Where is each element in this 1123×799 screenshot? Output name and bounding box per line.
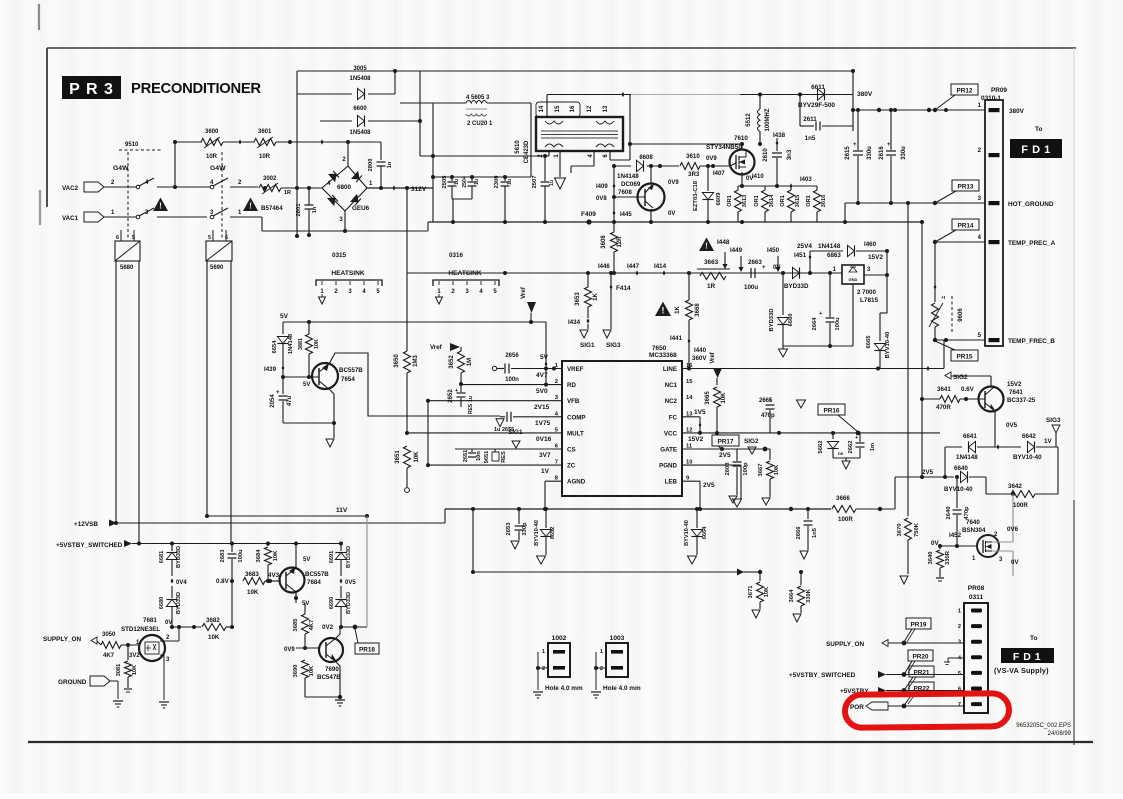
svg-text:TEMP_FREC_B: TEMP_FREC_B xyxy=(1008,338,1055,345)
svg-text:100R: 100R xyxy=(838,516,853,523)
wire 7690 collector up to 0V2 node xyxy=(336,634,340,638)
svg-text:I407: I407 xyxy=(713,171,725,177)
bridge rectifier 6800 GBU6 xyxy=(322,166,367,211)
svg-text:I434: I434 xyxy=(568,319,581,326)
svg-text:6800: 6800 xyxy=(337,184,352,191)
svg-text:BC547B: BC547B xyxy=(317,674,341,681)
wire S2 pin1 down to bottom return xyxy=(230,216,262,218)
net SIG1 stub down xyxy=(580,330,588,338)
svg-text:6608: 6608 xyxy=(639,155,653,161)
svg-text:I445: I445 xyxy=(620,212,632,218)
svg-text:0V: 0V xyxy=(165,620,172,626)
border frame top xyxy=(47,47,1076,49)
svg-text:F D 1: F D 1 xyxy=(1013,651,1041,663)
wire BSN304 drain to 3642 row xyxy=(992,541,1013,543)
svg-text:4V3: 4V3 xyxy=(268,572,280,579)
svg-text:100R: 100R xyxy=(1013,502,1028,509)
svg-text:3615: 3615 xyxy=(795,195,801,207)
svg-text:4V7: 4V7 xyxy=(536,372,548,379)
wire transformer top bus y95 xyxy=(547,94,631,96)
svg-text:!: ! xyxy=(705,242,708,251)
svg-text:0V8: 0V8 xyxy=(596,196,607,202)
svg-text:OR1: OR1 xyxy=(754,195,760,207)
svg-text:2: 2 xyxy=(542,666,545,672)
svg-text:G4W: G4W xyxy=(113,165,129,172)
svg-text:10K: 10K xyxy=(132,665,138,675)
svg-text:2V5: 2V5 xyxy=(703,482,715,489)
svg-text:RES: RES xyxy=(501,451,507,463)
svg-text:3614: 3614 xyxy=(769,194,775,207)
svg-text:100MHZ: 100MHZ xyxy=(765,108,771,131)
wire 6641 row left leg xyxy=(944,447,946,477)
svg-text:4 5605 3: 4 5605 3 xyxy=(466,95,490,101)
thermistor 3606 loop xyxy=(934,242,936,302)
svg-text:1M: 1M xyxy=(467,358,473,366)
svg-text:14: 14 xyxy=(686,395,693,401)
svg-text:2 7000: 2 7000 xyxy=(857,289,876,296)
svg-text:0311: 0311 xyxy=(969,594,984,601)
svg-text:I451: I451 xyxy=(794,252,807,259)
wire IC pin16 LINE 360V xyxy=(682,368,689,370)
wire IC pin11 GATE xyxy=(682,448,770,450)
svg-text:7654: 7654 xyxy=(341,376,355,383)
wire 7654 emitter to COMP net xyxy=(329,353,500,416)
svg-text:BYV10-40: BYV10-40 xyxy=(534,520,540,546)
svg-text:AGND: AGND xyxy=(567,479,586,486)
rail VCC 15V2 xyxy=(682,432,940,434)
relay coil 5690 xyxy=(206,241,232,261)
svg-text:1V: 1V xyxy=(541,468,550,475)
ground arrow under 6660 xyxy=(782,346,784,349)
svg-text:MC33368: MC33368 xyxy=(649,352,677,359)
svg-text:!: ! xyxy=(249,202,252,211)
svg-text:LINE: LINE xyxy=(663,366,677,373)
svg-text:3002: 3002 xyxy=(263,176,277,182)
callout PR17 xyxy=(712,435,739,446)
svg-text:PGND: PGND xyxy=(659,463,677,470)
svg-text:2505: 2505 xyxy=(442,175,448,189)
svg-text:2651: 2651 xyxy=(463,450,469,462)
title block PR3 xyxy=(62,76,121,99)
svg-text:3652: 3652 xyxy=(449,355,455,369)
wire 7684 collector to 3685 xyxy=(295,592,297,603)
svg-text:PR16: PR16 xyxy=(824,407,840,414)
svg-text:10n: 10n xyxy=(476,451,482,461)
wire 7641 emitter down xyxy=(994,411,996,447)
wire BSN304 source xyxy=(992,550,1013,552)
svg-text:3641: 3641 xyxy=(937,386,951,393)
svg-text:1003: 1003 xyxy=(610,635,625,642)
svg-text:7650: 7650 xyxy=(652,345,667,352)
svg-text:3665: 3665 xyxy=(705,391,711,405)
svg-text:I441: I441 xyxy=(670,335,683,342)
svg-text:7608: 7608 xyxy=(618,189,632,196)
svg-text:SUPPLY_ON: SUPPLY_ON xyxy=(43,636,82,643)
svg-text:24/08/99: 24/08/99 xyxy=(1048,731,1072,737)
node 0V4 xyxy=(171,578,174,583)
svg-text:10R: 10R xyxy=(259,154,271,160)
svg-text:PR08: PR08 xyxy=(968,585,985,592)
svg-text:BYD33D: BYD33D xyxy=(784,283,809,290)
svg-text:10K: 10K xyxy=(314,339,320,349)
svg-text:3R3: 3R3 xyxy=(688,171,700,178)
wire gray 11V drop xyxy=(366,516,368,627)
svg-text:0.6V: 0.6V xyxy=(961,386,975,393)
red annotation ellipse around POR xyxy=(845,693,1009,728)
svg-text:380V: 380V xyxy=(857,91,873,98)
svg-text:9651: 9651 xyxy=(484,451,490,463)
wire SIG3 row right leg xyxy=(1057,447,1059,494)
svg-text:SUPPLY_ON: SUPPLY_ON xyxy=(826,641,865,648)
svg-text:PR19: PR19 xyxy=(911,621,927,628)
svg-text:6: 6 xyxy=(225,235,228,241)
svg-text:2801: 2801 xyxy=(296,203,302,217)
svg-text:7690: 7690 xyxy=(325,666,339,673)
wire 312V down to I-row and line divider xyxy=(406,188,408,351)
node F414 xyxy=(610,273,612,329)
svg-text:ns: ns xyxy=(838,451,844,456)
svg-text:EZT03-C18: EZT03-C18 xyxy=(693,180,699,211)
svg-text:+: + xyxy=(855,435,858,441)
svg-text:PR12: PR12 xyxy=(957,87,973,94)
svg-text:BSN304: BSN304 xyxy=(962,527,986,534)
svg-text:2V15: 2V15 xyxy=(534,404,550,411)
svg-text:BYD33D: BYD33D xyxy=(769,309,775,332)
svg-text:360V: 360V xyxy=(692,355,707,362)
svg-text:1: 1 xyxy=(958,609,961,615)
wire 7690 emitter to ground xyxy=(336,662,340,666)
svg-text:BYV29F-500: BYV29F-500 xyxy=(798,102,835,109)
svg-text:470p: 470p xyxy=(964,506,970,520)
wire 3682 up to 0.8V node xyxy=(231,581,233,627)
svg-text:NC2: NC2 xyxy=(665,398,678,405)
svg-text:BYV10-40: BYV10-40 xyxy=(684,520,690,546)
svg-text:BYD33D: BYD33D xyxy=(346,592,352,614)
svg-text:2610: 2610 xyxy=(763,148,769,162)
svg-text:47u: 47u xyxy=(287,395,293,406)
svg-text:3005: 3005 xyxy=(353,66,367,72)
svg-text:PRECONDITIONER: PRECONDITIONER xyxy=(131,81,261,97)
svg-text:7: 7 xyxy=(958,702,961,708)
wire left loop x428 xyxy=(427,401,429,465)
wire opto pin3 to ground xyxy=(160,654,164,656)
svg-text:BC557B: BC557B xyxy=(339,367,363,374)
svg-text:330p: 330p xyxy=(522,522,528,536)
wire 7654 collector to ground xyxy=(330,390,334,394)
svg-text:0V9: 0V9 xyxy=(284,647,295,653)
wire node x297 vertical (diode feed) xyxy=(296,71,298,236)
svg-text:1R: 1R xyxy=(707,283,716,290)
svg-text:5V: 5V xyxy=(280,313,289,320)
warning triangle near S2 with NTC B57464 xyxy=(243,198,258,212)
wire hot-ground drop x908 xyxy=(907,203,909,516)
wire relay 5680 coil leads down xyxy=(115,261,117,523)
wire choke to transformer column xyxy=(530,103,532,177)
svg-text:GND: GND xyxy=(849,277,858,282)
wire 6600 to top bus xyxy=(419,71,421,156)
svg-text:6660: 6660 xyxy=(788,314,794,327)
wire resistor 3600 to 3601 xyxy=(223,141,254,143)
svg-text:!: ! xyxy=(159,202,162,211)
svg-text:B57464: B57464 xyxy=(261,205,283,212)
sense resistor top rail xyxy=(738,185,817,187)
svg-text:2653: 2653 xyxy=(506,522,512,536)
svg-text:VFB: VFB xyxy=(567,398,580,405)
svg-text:BC337-25: BC337-25 xyxy=(1007,397,1036,404)
svg-text:To: To xyxy=(1035,126,1042,133)
svg-text:5690: 5690 xyxy=(210,265,224,271)
svg-text:6680: 6680 xyxy=(159,597,165,609)
svg-text:3690: 3690 xyxy=(293,665,299,678)
svg-text:I414: I414 xyxy=(654,263,667,270)
svg-text:PR15: PR15 xyxy=(957,353,973,360)
svg-text:3610: 3610 xyxy=(686,153,700,160)
svg-text:10K: 10K xyxy=(208,634,220,641)
svg-text:0V5: 0V5 xyxy=(345,580,356,586)
svg-text:1: 1 xyxy=(600,649,603,655)
svg-text:2: 2 xyxy=(958,624,961,630)
svg-text:BC557B: BC557B xyxy=(305,571,329,578)
svg-text:5610: 5610 xyxy=(515,140,521,154)
svg-text:2V5: 2V5 xyxy=(922,469,934,476)
wire L7815 out to 15V2 node xyxy=(864,274,887,276)
svg-text:2640: 2640 xyxy=(946,507,952,520)
svg-text:BYV10-40: BYV10-40 xyxy=(1013,454,1042,461)
svg-text:330u: 330u xyxy=(901,146,907,160)
svg-text:VCC: VCC xyxy=(664,430,678,437)
svg-text:HOT_GROUND: HOT_GROUND xyxy=(1008,201,1054,208)
svg-text:3V2: 3V2 xyxy=(129,653,140,659)
svg-text:12R: 12R xyxy=(617,236,623,248)
warning triangle near S1 xyxy=(153,198,168,212)
svg-text:VAC1: VAC1 xyxy=(62,215,79,222)
svg-text:470R: 470R xyxy=(936,404,951,411)
svg-text:6863: 6863 xyxy=(827,252,841,259)
wire IC pin1 VREF 5V xyxy=(511,368,562,370)
border frame left xyxy=(46,48,48,207)
svg-text:SIG2: SIG2 xyxy=(953,374,968,381)
svg-text:10R: 10R xyxy=(206,154,218,160)
svg-text:I449: I449 xyxy=(730,247,743,254)
wire IC pin2 RD xyxy=(461,384,562,386)
wire MOSFET source to sense rail xyxy=(741,172,743,186)
ground rail 509 xyxy=(445,508,831,510)
transistor 7654 BC557B xyxy=(312,363,338,389)
svg-text:OR1: OR1 xyxy=(780,195,786,207)
svg-text:3613: 3613 xyxy=(742,195,748,207)
svg-text:15V2: 15V2 xyxy=(688,436,704,443)
svg-text:2V5: 2V5 xyxy=(719,452,731,459)
svg-text:1K: 1K xyxy=(593,292,599,300)
svg-text:0V4: 0V4 xyxy=(176,580,187,586)
net SIG3 stub down xyxy=(603,330,611,338)
svg-text:+: + xyxy=(762,265,766,271)
rail HOT_GROUND xyxy=(845,202,985,204)
svg-text:SIG3: SIG3 xyxy=(606,342,621,349)
wire top bus 380V feed xyxy=(297,70,853,72)
svg-text:1V75: 1V75 xyxy=(535,420,551,427)
svg-text:P R 3: P R 3 xyxy=(69,81,114,98)
resistor 3668 1K with warning xyxy=(655,302,671,316)
svg-text:2800: 2800 xyxy=(368,159,374,172)
svg-text:2504: 2504 xyxy=(462,176,468,188)
svg-text:3667: 3667 xyxy=(758,464,764,477)
rail 572 with arrow xyxy=(473,571,755,573)
svg-text:I448: I448 xyxy=(717,239,730,246)
svg-text:10K: 10K xyxy=(774,464,780,475)
svg-text:3671: 3671 xyxy=(748,585,754,599)
svg-text:1n5: 1n5 xyxy=(805,135,816,142)
svg-text:1M3: 1M3 xyxy=(413,355,419,367)
svg-text:RD: RD xyxy=(567,382,576,389)
svg-text:100p: 100p xyxy=(743,462,749,476)
svg-text:RES: RES xyxy=(468,403,474,414)
wire relay 5690 coil leads down xyxy=(206,261,208,516)
svg-text:I460: I460 xyxy=(864,241,877,248)
svg-text:6691: 6691 xyxy=(329,551,335,563)
wire PR08 pin4 stub xyxy=(948,657,964,659)
svg-text:9606: 9606 xyxy=(958,308,964,322)
svg-text:3650: 3650 xyxy=(394,354,400,368)
svg-text:I438: I438 xyxy=(773,132,786,139)
svg-text:SIG1: SIG1 xyxy=(508,429,523,436)
svg-text:0V16: 0V16 xyxy=(536,436,552,443)
node 0V5 xyxy=(340,578,343,583)
border frame bottom xyxy=(28,741,1093,743)
wire PR09 pin4 TEMP_PREC_A xyxy=(935,241,985,243)
svg-text:13: 13 xyxy=(603,105,609,112)
wire opto pin2 to 0V xyxy=(160,640,179,642)
svg-text:7681: 7681 xyxy=(143,617,157,624)
svg-text:6664: 6664 xyxy=(702,526,708,539)
svg-text:11V: 11V xyxy=(336,507,348,514)
svg-text:SIG1: SIG1 xyxy=(580,342,595,349)
svg-text:12: 12 xyxy=(587,105,593,112)
svg-text:0V9: 0V9 xyxy=(668,180,679,186)
wire 7684 emitter to rail xyxy=(295,544,297,569)
callout PR12 xyxy=(951,84,978,95)
svg-text:312V: 312V xyxy=(411,186,427,193)
svg-text:3081: 3081 xyxy=(116,664,122,676)
svg-text:3664: 3664 xyxy=(789,589,795,603)
wire 5662/2662 ground xyxy=(833,457,860,459)
svg-text:2666: 2666 xyxy=(796,526,802,540)
svg-text:0V6: 0V6 xyxy=(1007,526,1019,533)
svg-text:470p: 470p xyxy=(761,413,775,419)
callout PR21 xyxy=(909,666,934,677)
wire 177 cap row xyxy=(433,176,531,178)
svg-text:OR1: OR1 xyxy=(806,195,812,207)
svg-text:CE423D: CE423D xyxy=(524,140,530,163)
svg-text:OR1: OR1 xyxy=(727,195,733,207)
svg-text:2616: 2616 xyxy=(879,146,885,160)
ground rail 0V (hot) xyxy=(428,221,922,223)
svg-text:Hole 4.0 mm: Hole 4.0 mm xyxy=(545,685,583,692)
svg-text:6690: 6690 xyxy=(329,597,335,609)
svg-text:FC: FC xyxy=(669,414,678,421)
svg-text:5V: 5V xyxy=(303,557,310,563)
svg-text:0V: 0V xyxy=(668,211,675,217)
svg-text:LEB: LEB xyxy=(665,479,678,486)
svg-text:10K: 10K xyxy=(273,550,279,561)
svg-text:1N4148: 1N4148 xyxy=(617,173,639,180)
svg-text:BYD33D: BYD33D xyxy=(346,546,352,568)
svg-text:6609: 6609 xyxy=(716,192,722,206)
svg-text:3663: 3663 xyxy=(704,259,719,266)
svg-text:750K: 750K xyxy=(914,522,920,537)
svg-text:7684: 7684 xyxy=(307,579,321,586)
callout PR18 xyxy=(355,643,379,654)
wire 380V node vertical xyxy=(852,69,854,131)
svg-text:PR17: PR17 xyxy=(718,438,734,445)
svg-text:1m: 1m xyxy=(870,443,876,451)
svg-text:SIG3: SIG3 xyxy=(1046,417,1061,424)
svg-text:3616: 3616 xyxy=(821,195,827,207)
svg-text:F414: F414 xyxy=(616,285,631,292)
svg-text:4K7: 4K7 xyxy=(103,653,115,659)
wire switch S1 pin3 to S2 xyxy=(157,216,207,218)
svg-text:2663: 2663 xyxy=(748,259,762,266)
svg-text:PR20: PR20 xyxy=(913,653,929,660)
svg-text:2683: 2683 xyxy=(220,549,226,563)
svg-text:100n: 100n xyxy=(505,377,519,383)
svg-text:3608: 3608 xyxy=(601,235,607,249)
svg-text:0V: 0V xyxy=(773,265,780,271)
svg-text:I447: I447 xyxy=(627,263,640,270)
svg-text:POR: POR xyxy=(850,704,864,711)
svg-text:+5VSTBY_SWITCHED: +5VSTBY_SWITCHED xyxy=(789,672,856,679)
svg-text:+12VSB: +12VSB xyxy=(74,521,98,528)
wire vertical x433 (cap bus) xyxy=(432,103,434,222)
svg-text:330u: 330u xyxy=(867,146,873,160)
svg-text:3n3: 3n3 xyxy=(787,149,793,160)
svg-text:GATE: GATE xyxy=(660,447,677,454)
scan mark top left xyxy=(38,4,40,30)
wire bridge top to resistor row xyxy=(347,142,349,166)
svg-text:2300: 2300 xyxy=(494,176,500,189)
wire IC pin3 VFB xyxy=(428,400,562,402)
svg-text:0.8V: 0.8V xyxy=(216,578,230,585)
svg-text:Hole 4.0 mm: Hole 4.0 mm xyxy=(603,685,641,692)
transformer pin6 wiring to MOSFET drain xyxy=(609,151,611,160)
svg-text:+: + xyxy=(276,390,280,396)
wire caps 2505/2504 join to ground rail xyxy=(452,198,472,200)
svg-text:5V: 5V xyxy=(540,354,549,361)
svg-text:5680: 5680 xyxy=(120,265,134,271)
svg-text:3670: 3670 xyxy=(897,524,903,537)
svg-text:3682: 3682 xyxy=(206,617,220,624)
svg-text:G4W: G4W xyxy=(210,165,226,172)
callout PR15 xyxy=(951,350,978,361)
svg-text:VREF: VREF xyxy=(567,366,584,373)
svg-text:GROUND: GROUND xyxy=(58,679,87,686)
wire NTC to bridge node xyxy=(281,187,322,189)
svg-text:100u: 100u xyxy=(238,549,244,563)
wire IC pin9 LEB xyxy=(682,480,700,482)
wire VAC2 to switch 9500 pin2 xyxy=(104,186,136,188)
svg-text:Vref: Vref xyxy=(430,344,443,351)
wire IC pin8 AGND to ground rail xyxy=(545,480,562,482)
svg-text:1002: 1002 xyxy=(552,635,567,642)
svg-text:2608: 2608 xyxy=(725,462,731,476)
svg-text:1n5: 1n5 xyxy=(812,527,818,538)
svg-text:1R: 1R xyxy=(284,190,291,196)
wire MOSFET drain xyxy=(741,144,743,150)
svg-text:STD12NE3EL: STD12NE3EL xyxy=(121,626,160,633)
svg-text:3600: 3600 xyxy=(205,129,219,135)
svg-text:380V: 380V xyxy=(1009,108,1025,115)
svg-text:3050: 3050 xyxy=(102,632,116,638)
